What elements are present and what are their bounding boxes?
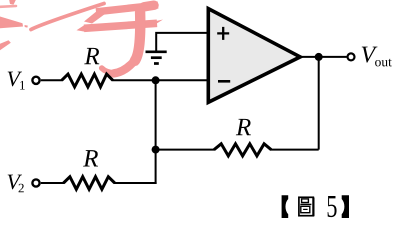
watermark stroke: J curl tail tip — [102, 68, 116, 73]
watermark stroke: band #1 left wedge — [84, 9, 107, 24]
junction dot node A — [152, 76, 160, 84]
wire R3 to feedback vertical — [270, 149, 318, 151]
label V1 — [8, 72, 25, 90]
caption left bracket — [282, 195, 289, 218]
watermark stroke: thin rising swoosh — [31, 4, 104, 30]
ground bar 3 — [154, 62, 159, 65]
wire node B to R3 — [156, 149, 215, 151]
resistor R3 zigzag — [214, 144, 271, 156]
junction dot node B — [152, 146, 160, 154]
caption figure 5 — [282, 195, 349, 218]
terminal Vout circle — [348, 53, 355, 60]
caption character tu (figure) outer box — [299, 197, 314, 216]
watermark stroke: small blob top-left — [9, 0, 16, 5]
op-amp U1 triangle — [208, 9, 300, 103]
caption right bracket — [342, 195, 349, 218]
wire V2 to R2 — [41, 182, 65, 184]
label Vout — [362, 47, 392, 67]
watermark stroke: faint band top-left — [0, 5, 16, 8]
wire V1 to R1 — [41, 79, 63, 81]
watermark stroke: J curl descending — [135, 12, 140, 61]
ground bar 2 — [151, 56, 162, 59]
label R3 — [236, 119, 251, 135]
op-amp minus sign — [218, 80, 230, 83]
caption digit 5 — [328, 196, 337, 217]
watermark stroke: lower-left diagonal — [0, 40, 11, 50]
wire R1 to op-amp minus input — [112, 79, 207, 81]
watermark stroke: band #1 right end blob — [144, 5, 154, 7]
watermark stroke: band #2 long horizontal — [84, 23, 157, 28]
terminal V2 circle — [32, 179, 39, 186]
wire vertical node column — [155, 80, 157, 184]
junction dot output node — [315, 53, 323, 61]
wire output — [300, 56, 347, 58]
resistor R2 zigzag — [64, 177, 115, 190]
watermark (red cursive stamp, partial characters) — [0, 0, 163, 73]
label V2 — [8, 175, 24, 193]
op-amp plus sign — [217, 27, 229, 40]
wire feedback vertical — [318, 57, 320, 150]
watermark stroke: left wedge band — [0, 17, 23, 29]
ground bar 1 — [146, 50, 167, 53]
watermark stroke: band #2 right rising tip — [152, 20, 163, 27]
resistor R1 zigzag — [62, 74, 113, 87]
wire plus input — [156, 33, 206, 52]
terminal V1 circle — [32, 77, 39, 84]
watermark stroke: J curl bend — [114, 60, 136, 74]
label R1 — [84, 48, 99, 64]
watermark stroke: band #1 upper horizontal — [96, 5, 158, 12]
label R2 — [83, 150, 98, 166]
watermark stroke: small mid bit — [25, 25, 28, 28]
wire R2 to node column — [114, 182, 157, 184]
